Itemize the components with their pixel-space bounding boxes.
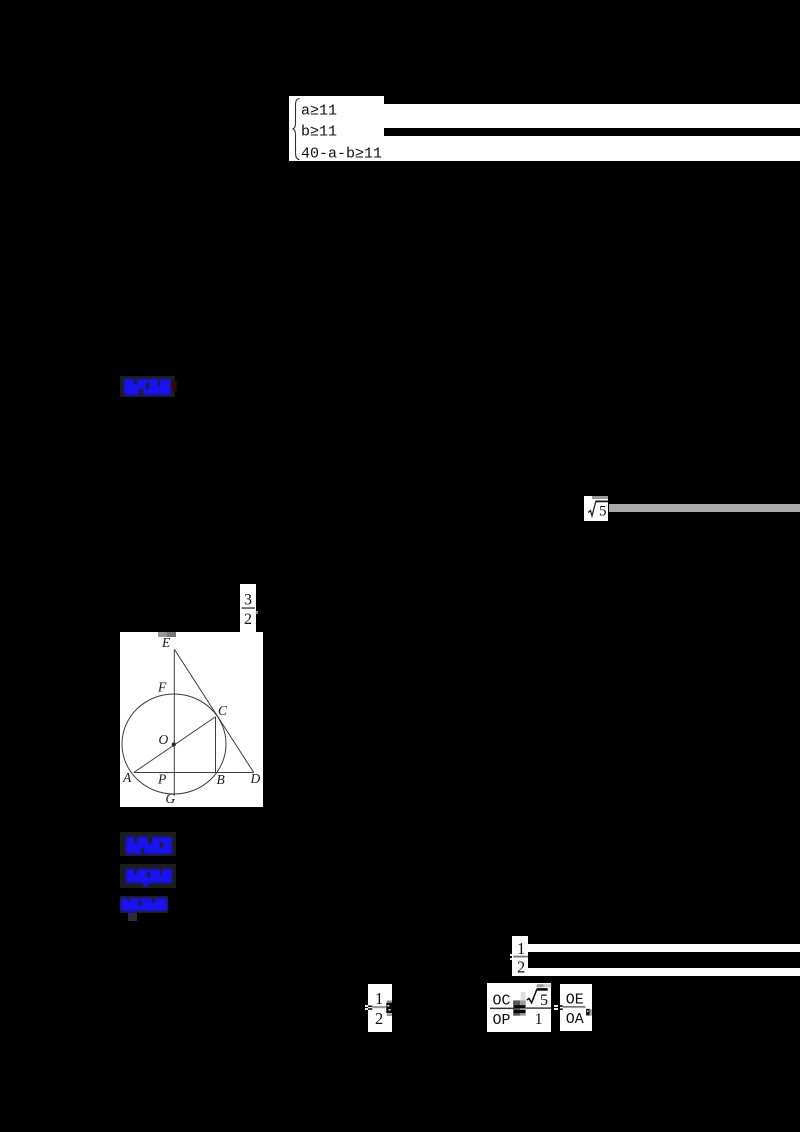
svg-text:a≥11: a≥11 [301,102,337,119]
svg-text:C: C [218,703,228,718]
svg-text:3: 3 [244,591,252,608]
svg-text:2: 2 [244,611,252,628]
svg-text:OA: OA [566,1011,584,1028]
svg-text:O: O [159,732,169,747]
svg-text:E: E [161,635,171,650]
svg-text:P: P [157,772,166,787]
svg-text:1: 1 [375,989,383,1008]
svg-text:2: 2 [517,957,525,976]
svg-text:A: A [122,770,132,785]
svg-text:B: B [217,772,225,787]
svg-text:b≥11: b≥11 [301,123,337,140]
svg-text:1: 1 [535,1011,543,1028]
svg-text:5: 5 [540,992,548,1009]
svg-text:5: 5 [599,503,607,519]
svg-text:OP: OP [493,1012,511,1029]
svg-text:2: 2 [375,1009,383,1028]
svg-text:D: D [250,771,261,786]
svg-text:40-a-b≥11: 40-a-b≥11 [301,145,382,162]
svg-text:1: 1 [517,939,525,958]
svg-text:G: G [166,791,176,806]
svg-text:OC: OC [493,992,511,1009]
svg-text:F: F [157,680,167,695]
